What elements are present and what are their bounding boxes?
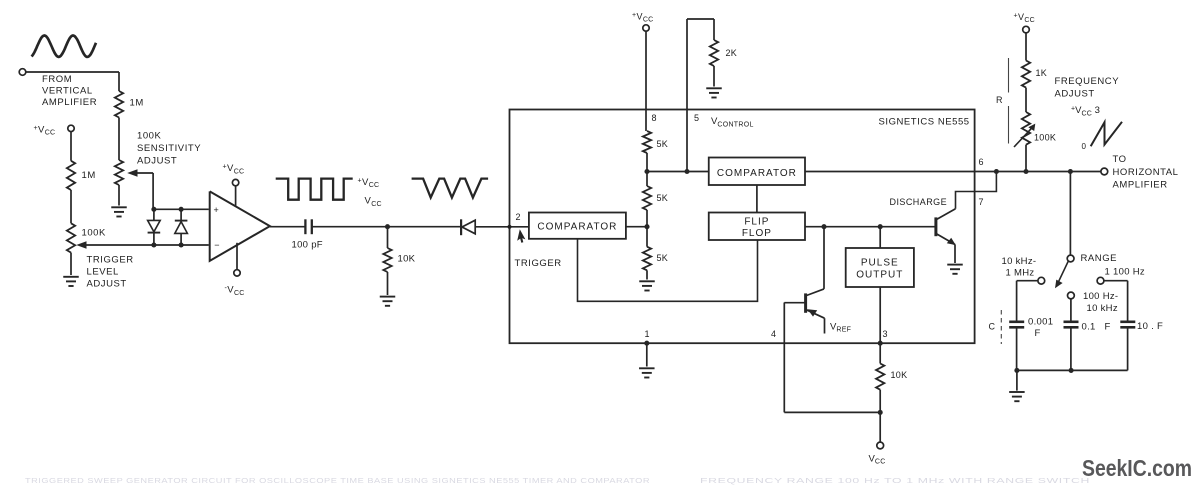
svg-text:5K: 5K	[657, 253, 669, 263]
svg-text:5K: 5K	[657, 139, 669, 149]
svg-text:0: 0	[1082, 142, 1087, 151]
svg-text:10K: 10K	[398, 253, 416, 264]
svg-text:4: 4	[771, 329, 776, 339]
svg-text:0.001: 0.001	[1028, 317, 1053, 328]
svg-text:COMPARATOR: COMPARATOR	[537, 222, 617, 233]
svg-text:F: F	[1035, 328, 1041, 339]
svg-text:SeekIC.com: SeekIC.com	[1082, 455, 1192, 481]
svg-text:FROM: FROM	[42, 74, 72, 85]
svg-text:AMPLIFIER: AMPLIFIER	[1113, 180, 1168, 191]
svg-text:6: 6	[979, 157, 984, 167]
svg-text:ADJUST: ADJUST	[87, 278, 127, 289]
svg-text:R: R	[996, 95, 1003, 105]
svg-text:−: −	[214, 240, 219, 250]
svg-text:3: 3	[883, 329, 888, 339]
svg-text:COMPARATOR: COMPARATOR	[717, 168, 797, 179]
svg-text:AMPLIFIER: AMPLIFIER	[42, 97, 97, 108]
svg-text:C: C	[989, 322, 996, 332]
svg-text:10 kHz-: 10 kHz-	[1002, 256, 1037, 267]
svg-text:2K: 2K	[726, 48, 738, 58]
svg-text:10K: 10K	[891, 370, 908, 380]
svg-text:100K: 100K	[1034, 132, 1056, 142]
svg-text:10 kHz: 10 kHz	[1087, 303, 1118, 314]
svg-text:1M: 1M	[130, 97, 144, 108]
svg-text:HORIZONTAL: HORIZONTAL	[1113, 167, 1179, 178]
svg-text:+: +	[214, 205, 219, 215]
svg-text:SIGNETICS NE555: SIGNETICS NE555	[879, 116, 970, 127]
svg-text:8: 8	[652, 113, 657, 123]
svg-text:2: 2	[516, 212, 521, 222]
svg-text:TO: TO	[1113, 154, 1127, 165]
svg-text:1 MHz: 1 MHz	[1006, 268, 1035, 279]
svg-text:VERTICAL: VERTICAL	[42, 86, 93, 97]
svg-text:100 pF: 100 pF	[292, 240, 323, 251]
svg-text:10 . F: 10 . F	[1137, 321, 1163, 332]
svg-text:RANGE: RANGE	[1081, 253, 1118, 264]
svg-text:5K: 5K	[657, 193, 669, 203]
svg-text:100K: 100K	[137, 131, 162, 142]
svg-text:1 100 Hz: 1 100 Hz	[1105, 266, 1145, 277]
svg-text:OUTPUT: OUTPUT	[856, 270, 903, 281]
svg-text:TRIGGER: TRIGGER	[515, 258, 562, 269]
svg-text:100K: 100K	[82, 227, 107, 238]
svg-text:FREQUENCY RANGE 100 Hz TO 1 MH: FREQUENCY RANGE 100 Hz TO 1 MHz WITH RAN…	[700, 476, 1090, 485]
svg-text:DISCHARGE: DISCHARGE	[890, 197, 948, 207]
svg-text:TRIGGER: TRIGGER	[87, 255, 134, 266]
svg-text:F: F	[1105, 322, 1111, 333]
svg-text:100 Hz-: 100 Hz-	[1083, 291, 1118, 302]
svg-text:SENSITIVITY: SENSITIVITY	[137, 143, 201, 154]
svg-text:0.1: 0.1	[1082, 322, 1096, 333]
svg-text:5: 5	[694, 113, 699, 123]
svg-text:FLOP: FLOP	[742, 228, 772, 239]
svg-text:FREQUENCY: FREQUENCY	[1055, 76, 1120, 87]
svg-text:7: 7	[979, 197, 984, 207]
svg-text:1: 1	[645, 329, 650, 339]
svg-text:1K: 1K	[1036, 68, 1048, 78]
svg-text:FLIP: FLIP	[744, 217, 769, 228]
svg-text:ADJUST: ADJUST	[137, 156, 177, 167]
svg-text:ADJUST: ADJUST	[1055, 88, 1095, 99]
svg-text:PULSE: PULSE	[861, 257, 899, 268]
svg-text:1M: 1M	[82, 170, 96, 181]
svg-text:TRIGGERED SWEEP GENERATOR CIRC: TRIGGERED SWEEP GENERATOR CIRCUIT FOR OS…	[25, 476, 650, 485]
svg-text:LEVEL: LEVEL	[87, 266, 119, 277]
